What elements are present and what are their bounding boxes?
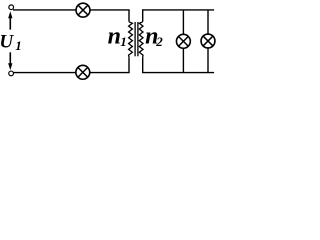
lamp L4 (right branch 2): [201, 34, 215, 48]
voltage arrow up (top): [8, 11, 12, 29]
transformer primary winding n1: [129, 22, 133, 58]
transformer secondary winding n2: [139, 22, 143, 58]
svg-text:n: n: [108, 23, 121, 49]
wire branch lamp L3: [182, 10, 184, 73]
wire branch lamp L4: [207, 10, 209, 73]
transformer core line right: [137, 22, 139, 56]
wire secondary bottom: [143, 57, 214, 72]
label n1: [108, 23, 127, 49]
svg-text:1: 1: [120, 34, 127, 49]
voltage arrow down (bottom): [8, 52, 12, 70]
label n2: [145, 23, 163, 49]
wire secondary top: transformer secondary top lead to right, with overhang: [143, 10, 214, 22]
wire top primary: left terminal to transformer primary top lead: [13, 10, 129, 22]
lamp L3 (right branch 1): [176, 34, 190, 48]
lamp L2 (bottom primary): [76, 65, 90, 79]
svg-text:1: 1: [15, 38, 22, 53]
terminal bottom-left: [9, 71, 14, 76]
svg-text:U: U: [0, 32, 14, 53]
wire bottom primary: transformer primary bottom lead to left terminal: [13, 57, 129, 72]
svg-text:2: 2: [155, 34, 163, 49]
label U1: [0, 32, 22, 54]
lamp L1 (top primary): [76, 3, 90, 17]
terminal top-left: [9, 5, 14, 10]
transformer core line left: [134, 22, 136, 56]
